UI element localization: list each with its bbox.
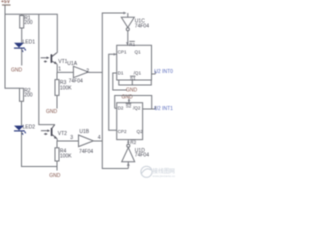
svg-text:/Q1: /Q1: [134, 71, 142, 76]
svg-text:R2: R2: [130, 140, 136, 145]
wire S1 to gnd rail: [131, 80, 133, 85]
wire R4 to GND: [56, 161, 58, 171]
svg-text:U1B: U1B: [79, 129, 89, 135]
resistor R3: [56, 72, 58, 79]
svg-text:www.jiexiantu.com: www.jiexiantu.com: [153, 174, 176, 178]
wire node3 to U1B input: [57, 140, 78, 142]
LED LED2: [14, 125, 35, 135]
resistor R4: [56, 141, 58, 148]
wire left power rail vertical: [5, 5, 20, 88]
wire VT1 emitter to node 1: [56, 64, 58, 72]
svg-text:VT1: VT1: [58, 59, 67, 65]
svg-text:U2 INT0: U2 INT0: [154, 69, 173, 75]
wire vertical A feedback: [102, 13, 128, 169]
wire VT2 emitter to node 3: [56, 139, 58, 141]
wire S2 pin: [128, 99, 130, 103]
svg-text:74F04: 74F04: [135, 153, 149, 159]
wire U1C out to box1 R pin: [127, 31, 129, 46]
svg-text:GND: GND: [11, 68, 23, 74]
svg-text:LED2: LED2: [23, 125, 36, 131]
op-amp U1D (inverter up): [122, 140, 149, 162]
wire U1A output to vertical A: [88, 71, 102, 73]
svg-text:Q2: Q2: [137, 129, 144, 134]
wire R3 to GND: [56, 95, 58, 108]
flip-flop U2A box1: [117, 45, 152, 80]
wire gnd-/Q2 link under box1: [115, 96, 152, 110]
watermark: [141, 166, 178, 178]
wire U1B output node4: [93, 140, 102, 142]
svg-text:VT2: VT2: [58, 131, 67, 137]
resistor R1: [21, 14, 23, 15]
svg-text:U1A: U1A: [67, 61, 77, 67]
svg-text:1: 1: [58, 66, 61, 72]
svg-text:D1: D1: [118, 71, 124, 76]
wire D2 input: [115, 107, 117, 109]
wire LED1 to GND: [21, 49, 23, 66]
svg-text:Q1: Q1: [135, 50, 142, 55]
transistor VT1 (photo): [41, 53, 68, 65]
pin S1 (active low): [130, 75, 136, 77]
pin S2 (active low): [126, 103, 132, 105]
svg-text:4: 4: [98, 135, 101, 141]
LED LED1: [14, 39, 35, 52]
op-amp U1B (inverter): [79, 129, 94, 155]
svg-text:CP1: CP1: [118, 50, 127, 55]
svg-text:100K: 100K: [60, 85, 72, 91]
wire /Q1 out: [152, 73, 156, 75]
wire +5V bar: [2, 4, 11, 6]
svg-text:R1: R1: [129, 42, 135, 47]
svg-text:+5V: +5V: [1, 0, 11, 5]
svg-text:74F04: 74F04: [79, 149, 93, 155]
svg-text:/Q2: /Q2: [133, 106, 141, 111]
flip-flop U2B box2: [117, 103, 143, 140]
transistor VT2 (photo): [41, 125, 67, 139]
svg-text:S1: S1: [130, 76, 136, 81]
svg-text:200: 200: [24, 93, 33, 99]
wire LED2 down and right to R4 bottom: [22, 131, 58, 166]
wire U1D input: [127, 162, 129, 169]
op-amp U1A (inverter): [67, 61, 88, 84]
svg-text:GND: GND: [126, 87, 138, 93]
svg-text:GND: GND: [49, 173, 61, 179]
svg-text:200: 200: [24, 20, 33, 26]
wire top power rail: [5, 14, 57, 53]
wire gnd rail under box1: [119, 80, 152, 85]
svg-text:2: 2: [86, 69, 89, 75]
wire R1 to LED1: [21, 28, 23, 43]
resistor R2: [20, 88, 24, 101]
svg-text:3: 3: [70, 135, 73, 141]
svg-text:GND: GND: [46, 109, 58, 115]
svg-text:74F04: 74F04: [135, 24, 149, 30]
op-amp U1C (inverter down): [121, 13, 149, 31]
svg-text:CP2: CP2: [118, 129, 127, 134]
pin R1 (active low): [129, 40, 135, 42]
wire /Q2 out: [143, 108, 156, 110]
wire VT2 collector feed: [39, 14, 55, 124]
svg-text:S2: S2: [126, 104, 132, 109]
pin R2 (active low): [130, 139, 136, 141]
wire node1 to U1A input: [57, 71, 73, 73]
wire vertical B clock: [109, 54, 117, 130]
svg-text:LED1: LED1: [23, 39, 36, 45]
svg-text:74F04: 74F04: [69, 79, 83, 85]
svg-text:D2: D2: [118, 106, 124, 111]
wire R2 to LED2: [21, 101, 23, 125]
svg-text:U2 INT1: U2 INT1: [154, 106, 173, 112]
wire D1 input: [113, 73, 127, 90]
svg-text:100K: 100K: [60, 153, 72, 159]
